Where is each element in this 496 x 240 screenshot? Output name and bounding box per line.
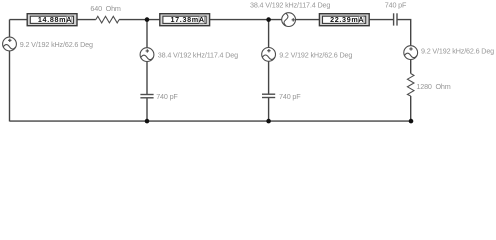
ammeter U2 box 17.38mA xyxy=(160,14,210,26)
wire top: resistor R1 to ammeter U2 xyxy=(119,19,160,21)
resistor R2 1280 Ohm vertical zigzag xyxy=(407,74,414,97)
svg-text:A: A xyxy=(199,15,205,24)
wire bottom rail xyxy=(10,120,412,122)
node A junction dot top branch2 xyxy=(145,17,150,22)
wire branch3 middle: source V5 to capacitor C2 xyxy=(268,61,270,93)
svg-text:1280 Ohm: 1280 Ohm xyxy=(416,82,450,91)
wire branch2 middle: source V2 to capacitor C1 xyxy=(146,62,148,94)
wire branch2 lower: capacitor C1 to bottom rail xyxy=(146,98,148,121)
svg-text:14.88m: 14.88m xyxy=(38,15,66,24)
wire top: left corner to ammeter U1 xyxy=(10,19,29,21)
source V1 left AC 9.2V xyxy=(3,37,17,51)
svg-text:740 pF: 740 pF xyxy=(279,92,301,101)
svg-text:9.2 V/192 kHz/62.6 Deg: 9.2 V/192 kHz/62.6 Deg xyxy=(421,47,494,56)
ammeter U1 box 14.88mA xyxy=(27,14,77,26)
wire branch3 lower: capacitor C2 to bottom rail xyxy=(268,98,270,122)
wire top: ammeter U3 to capacitor C3 xyxy=(369,19,393,21)
svg-text:17.38m: 17.38m xyxy=(171,15,199,24)
svg-text:22.39m: 22.39m xyxy=(330,15,358,24)
svg-text:9.2 V/192 kHz/62.6 Deg: 9.2 V/192 kHz/62.6 Deg xyxy=(20,40,93,49)
source V4 right AC 9.2V xyxy=(404,46,418,60)
source V5 branch3 AC 9.2V xyxy=(262,48,276,62)
wire branch3 upper: node to source V5 xyxy=(268,20,270,48)
source V2 branch2 AC 38.4V xyxy=(140,48,154,62)
wire branch2 upper: node to source V2 xyxy=(146,20,148,48)
wire right branch lower: resistor R2 to bottom rail xyxy=(410,96,412,121)
wire left branch upper xyxy=(9,20,11,38)
ammeter U3 box 22.39mA xyxy=(319,14,369,26)
wire top: source V3 to ammeter U3 xyxy=(295,19,319,21)
wire top right: capacitor C3 to corner and down to source V4 xyxy=(397,20,411,46)
source V3 horizontal AC 38.4V xyxy=(282,13,296,27)
svg-text:640 Ohm: 640 Ohm xyxy=(90,4,121,13)
svg-text:38.4 V/192 kHz/117.4 Deg: 38.4 V/192 kHz/117.4 Deg xyxy=(250,0,330,9)
svg-text:38.4 V/192 kHz/117.4 Deg: 38.4 V/192 kHz/117.4 Deg xyxy=(158,50,238,59)
capacitor C1 branch2 740 pF xyxy=(140,95,153,98)
node D junction dot bottom branch3 xyxy=(266,119,271,124)
wire left branch lower xyxy=(9,51,11,122)
wire top: ammeter U1 to resistor R1 xyxy=(77,19,96,21)
svg-text:740 pF: 740 pF xyxy=(385,0,407,9)
wire right branch: source V4 to resistor R2 xyxy=(410,59,412,73)
svg-text:A: A xyxy=(358,15,364,24)
svg-text:A: A xyxy=(66,15,72,24)
node B junction dot top branch3 xyxy=(266,17,271,22)
node C junction dot bottom branch2 xyxy=(145,119,150,124)
svg-text:9.2 V/192 kHz/62.6 Deg: 9.2 V/192 kHz/62.6 Deg xyxy=(279,51,352,60)
wire top: ammeter U2 to source V3 xyxy=(209,19,282,21)
svg-text:740 pF: 740 pF xyxy=(156,92,178,101)
capacitor C2 branch3 740 pF xyxy=(262,94,275,97)
node E junction dot bottom right xyxy=(409,119,414,124)
capacitor C3 740 pF top right xyxy=(394,13,397,25)
resistor R1 640 Ohm zigzag xyxy=(96,16,119,23)
